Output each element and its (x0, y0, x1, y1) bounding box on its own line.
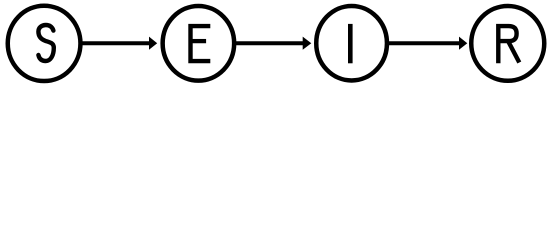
label E (191, 26, 211, 61)
arrowhead S to E (149, 37, 157, 50)
arrowhead E to I (303, 37, 312, 50)
node I circle (316, 6, 387, 81)
label S (38, 25, 53, 61)
node E circle (163, 6, 235, 81)
label R (498, 26, 516, 63)
arrowhead I to R (459, 37, 467, 50)
node R circle (471, 6, 544, 81)
wire arrow shaft S to E (82, 41, 151, 45)
node S circle (8, 6, 81, 81)
label I (348, 24, 353, 63)
wire arrow shaft I to R (389, 41, 461, 45)
wire arrow shaft E to I (236, 41, 305, 45)
